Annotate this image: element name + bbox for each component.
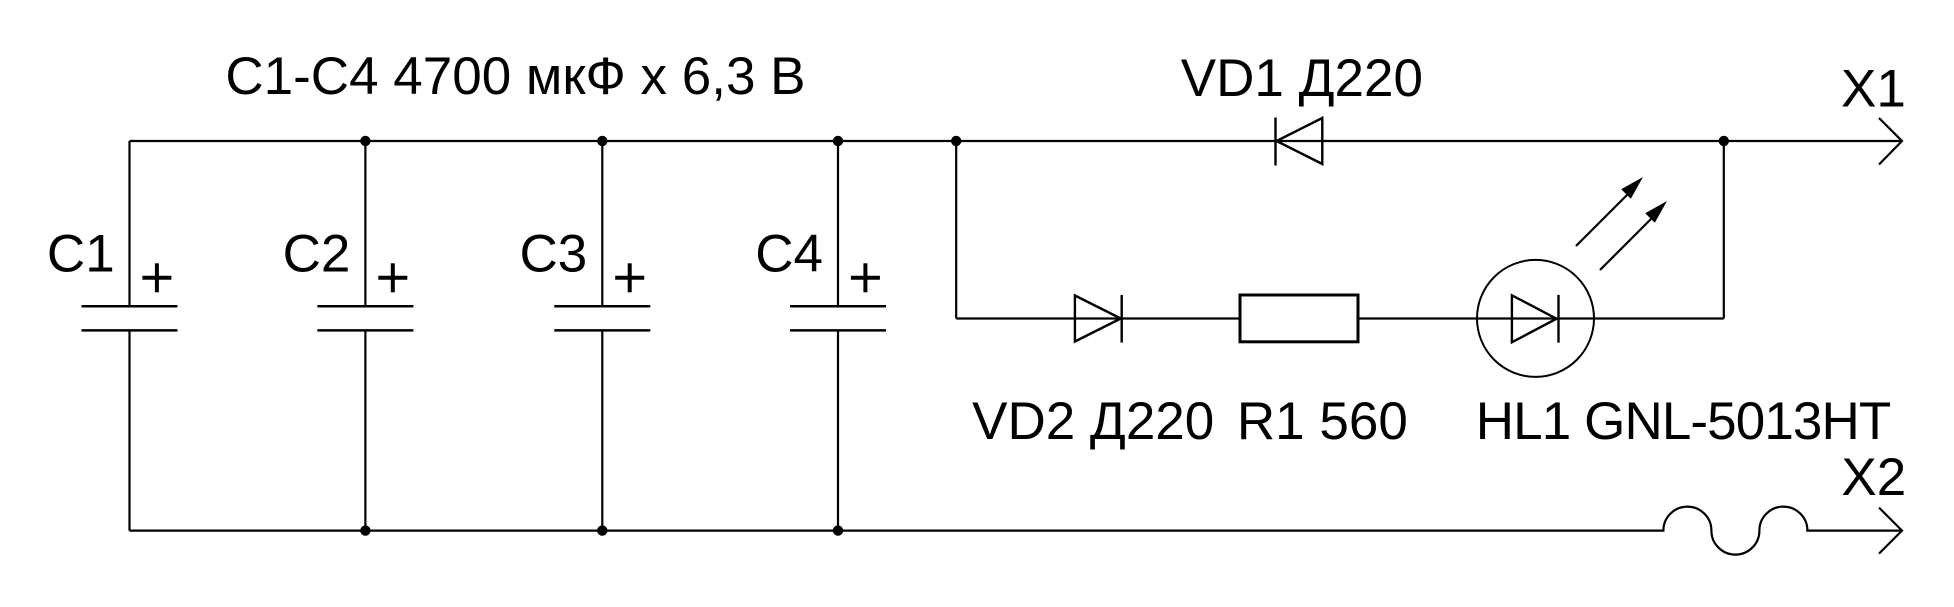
- svg-text:C4: C4: [755, 224, 823, 283]
- capacitor C3: [554, 306, 650, 330]
- junction node at C3 bottom: [597, 525, 607, 535]
- junction node at C3 top: [597, 136, 607, 146]
- svg-text:C1: C1: [47, 224, 115, 283]
- wire: branch right riser to node B: [1723, 141, 1725, 319]
- wire: branch bottom run VD2-R1-HL1: [956, 317, 1724, 319]
- capacitor C1: [82, 306, 178, 330]
- polarity plus of C3: [615, 263, 644, 292]
- svg-text:VD1 Д220: VD1 Д220: [1181, 49, 1423, 108]
- diode VD1: [1276, 118, 1323, 166]
- junction node at C4 top: [833, 136, 843, 146]
- wire: branch left drop from node A: [955, 141, 957, 319]
- svg-text:X2: X2: [1841, 448, 1906, 507]
- svg-text:C1-C4 4700 мкФ x 6,3 В: C1-C4 4700 мкФ x 6,3 В: [225, 47, 805, 106]
- LED HL1 diode symbol: [1512, 295, 1559, 343]
- wire: top rail (net X1): [130, 140, 1903, 142]
- svg-text:C3: C3: [520, 224, 588, 283]
- LED HL1 light arrow 2: [1600, 201, 1667, 270]
- LED HL1 body circle: [1477, 260, 1594, 377]
- wire: C1 left leg: [128, 141, 130, 531]
- resistor R1: [1240, 295, 1358, 342]
- diode VD2: [1075, 295, 1122, 343]
- wire: bottom rail (net X2) with sine break: [130, 507, 1903, 555]
- junction node B (branch right, top rail): [1719, 136, 1729, 146]
- polarity plus of C4: [851, 263, 880, 292]
- polarity plus of C2: [378, 263, 407, 292]
- junction node at C2 bottom: [360, 525, 370, 535]
- capacitor C2: [317, 306, 413, 330]
- terminal X2 arrowhead: [1879, 508, 1902, 554]
- wire: C3 leg: [601, 141, 603, 531]
- junction node A (branch left, top rail): [951, 136, 961, 146]
- svg-text:C2: C2: [283, 224, 351, 283]
- capacitor C4: [790, 306, 886, 330]
- LED HL1 light arrow 1: [1576, 177, 1643, 246]
- wire: C4 leg: [837, 141, 839, 531]
- svg-text:HL1 GNL-5013HT: HL1 GNL-5013HT: [1476, 392, 1891, 451]
- svg-text:R1 560: R1 560: [1237, 392, 1408, 451]
- wire: C2 leg: [364, 141, 366, 531]
- junction node at C2 top: [360, 136, 370, 146]
- polarity plus of C1: [142, 263, 171, 292]
- terminal X1 arrowhead: [1879, 118, 1902, 165]
- junction node at C4 bottom: [833, 525, 843, 535]
- svg-text:X1: X1: [1841, 59, 1906, 118]
- svg-text:VD2 Д220: VD2 Д220: [972, 392, 1214, 451]
